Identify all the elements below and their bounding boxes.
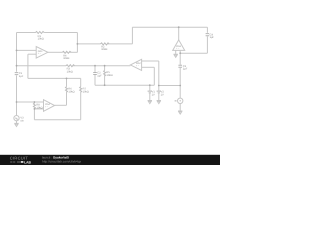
wire top net horizontal y=32.5 left lead bbox=[17, 32, 36, 34]
wire horizontal y=43.9 right lead bbox=[108, 43, 133, 45]
wire vertical x=207.4 lower lead from C4 bbox=[206, 36, 208, 53]
voltage source V3 bbox=[14, 115, 19, 120]
wire vertical x=207.4 upper lead to C4 bbox=[206, 27, 208, 33]
wire vertical x=77.4 (corner 32.5 to 52.4) bbox=[76, 33, 78, 53]
resistor R7 bbox=[80, 87, 82, 93]
wire meter to ground bbox=[179, 104, 181, 111]
svg-text:1μF: 1μF bbox=[183, 68, 188, 71]
wire horizontal y=78.4 bbox=[28, 77, 81, 79]
wire left column upper (x=16.5, y 32.5-71.8) bbox=[16, 33, 18, 72]
wire right battery column lower bbox=[158, 93, 160, 100]
ground GND5 bbox=[14, 123, 18, 126]
wire R6 column upper bbox=[66, 78, 68, 86]
resistor R3 bbox=[66, 65, 75, 67]
battery V1 bbox=[148, 91, 152, 93]
resistor R1 bbox=[36, 32, 45, 34]
wire OA2 bottom input horizontal y=67.3 bbox=[142, 66, 155, 68]
wire mid horizontal y=65.7 left lead bbox=[17, 65, 67, 67]
wire top-right horizontal y=27.2 bbox=[132, 26, 207, 28]
svg-text:1V: 1V bbox=[161, 93, 164, 96]
ground GND2 bbox=[178, 111, 182, 114]
wire OA1 output right lead to x=77.4 bbox=[70, 51, 78, 53]
wire V3 to ground bbox=[16, 121, 18, 123]
wire horizontal y=43.9 left lead to R2 bbox=[77, 43, 100, 45]
svg-text:sin: sin bbox=[20, 120, 24, 123]
resistor R4 bbox=[62, 51, 71, 53]
svg-text:10kΩ: 10kΩ bbox=[106, 74, 112, 77]
wire OA3 left pin bbox=[175, 50, 177, 54]
resistor R2 bbox=[101, 43, 110, 45]
ground GND1 bbox=[174, 54, 178, 57]
svg-text:10kΩ: 10kΩ bbox=[63, 57, 69, 60]
svg-text:1μF: 1μF bbox=[97, 74, 102, 77]
capacitor C3 bbox=[178, 65, 182, 67]
wire C2 column upper bbox=[94, 66, 96, 72]
junction dots bbox=[16, 26, 182, 110]
wire horizontal y=85.2 (RC bottoms to x=154.3) bbox=[95, 84, 154, 86]
footer bar bbox=[0, 155, 220, 165]
svg-text:10kΩ: 10kΩ bbox=[68, 90, 74, 93]
ground GND3 bbox=[148, 101, 152, 104]
wire R6 column lower bbox=[66, 92, 68, 105]
wire OA4 top input horizontal y=102 bbox=[17, 101, 44, 103]
wire R7 column upper bbox=[80, 78, 82, 86]
ground GND4 bbox=[157, 101, 161, 104]
capacitor C2 bbox=[93, 73, 97, 75]
svg-text:1V: 1V bbox=[152, 93, 155, 96]
wire R5 column lower bbox=[104, 75, 106, 85]
resistor R5 bbox=[104, 70, 106, 76]
wire vertical x=132.4 bbox=[131, 27, 133, 44]
resistor R8 bbox=[33, 102, 35, 109]
capacitor C1 bbox=[15, 73, 19, 75]
wire OA1 top input y=50.4 bbox=[17, 49, 37, 51]
wire horizontal y=53.2 feedback return bbox=[180, 52, 207, 54]
wire horizontal y=85.5 right segment bbox=[159, 85, 180, 87]
wire OA3 right pin down to C3 bbox=[179, 50, 181, 64]
wire op-amp OA3 output up bbox=[178, 27, 180, 40]
wire top net horizontal y=32.5 right lead bbox=[44, 32, 77, 34]
wire left battery column lower bbox=[149, 93, 151, 100]
resistor R6 bbox=[66, 87, 68, 93]
wire OA4 output horizontal y=105.3 bbox=[55, 104, 67, 106]
wire x=180.2 below C3 to y=85.5 bbox=[179, 68, 181, 86]
svg-text:http://circuitlab.com/c6vb4qx: http://circuitlab.com/c6vb4qx bbox=[42, 159, 81, 163]
svg-text:10kΩ: 10kΩ bbox=[67, 71, 73, 74]
meter M1 bbox=[178, 98, 183, 103]
wire OA4 bottom input horizontal y=108.9 bbox=[34, 108, 43, 110]
wire x=180.2 from y=85.5 down to meter bbox=[179, 86, 181, 99]
wire OA1 bottom input y=54.2 bbox=[28, 53, 36, 55]
wire OA2 top input horizontal y=61 bbox=[142, 60, 159, 62]
wire OA1 output lead bbox=[48, 51, 63, 53]
wire horizontal y=119.7 bbox=[34, 119, 80, 121]
CircuitLab logo LAB row bbox=[10, 161, 16, 163]
svg-text:10kΩ: 10kΩ bbox=[101, 48, 107, 51]
svg-text:1μF: 1μF bbox=[19, 75, 24, 78]
wire R5 column upper bbox=[104, 66, 106, 71]
op-amp OA1 bbox=[36, 47, 48, 59]
wire vertical x=154.3 bbox=[153, 67, 155, 85]
wire right battery column upper bbox=[158, 61, 160, 91]
op-amp OA2 bbox=[130, 59, 141, 70]
svg-text:10kΩ: 10kΩ bbox=[36, 106, 42, 109]
wire vertical x=27.9 bbox=[27, 54, 29, 78]
svg-text:10kΩ: 10kΩ bbox=[83, 90, 89, 93]
wire R7 column lower bbox=[80, 92, 82, 120]
svg-text:1μF: 1μF bbox=[210, 36, 215, 39]
op-amp OA3 bbox=[173, 40, 185, 51]
op-amp OA4 bbox=[44, 100, 55, 112]
capacitor C4 bbox=[206, 34, 210, 36]
wire C2 column lower bbox=[94, 75, 96, 85]
svg-text:10kΩ: 10kΩ bbox=[38, 38, 44, 41]
wire left battery column upper bbox=[149, 85, 151, 90]
wire vertical x=34.4 lower bbox=[33, 109, 35, 120]
wire left column lower (x=16.5, y 75.4-115.2) bbox=[16, 75, 18, 115]
battery V2 bbox=[157, 91, 161, 93]
wire mid horizontal y=65.7 right lead to OA2 output bbox=[73, 65, 130, 67]
svg-text:LAB: LAB bbox=[24, 160, 31, 164]
